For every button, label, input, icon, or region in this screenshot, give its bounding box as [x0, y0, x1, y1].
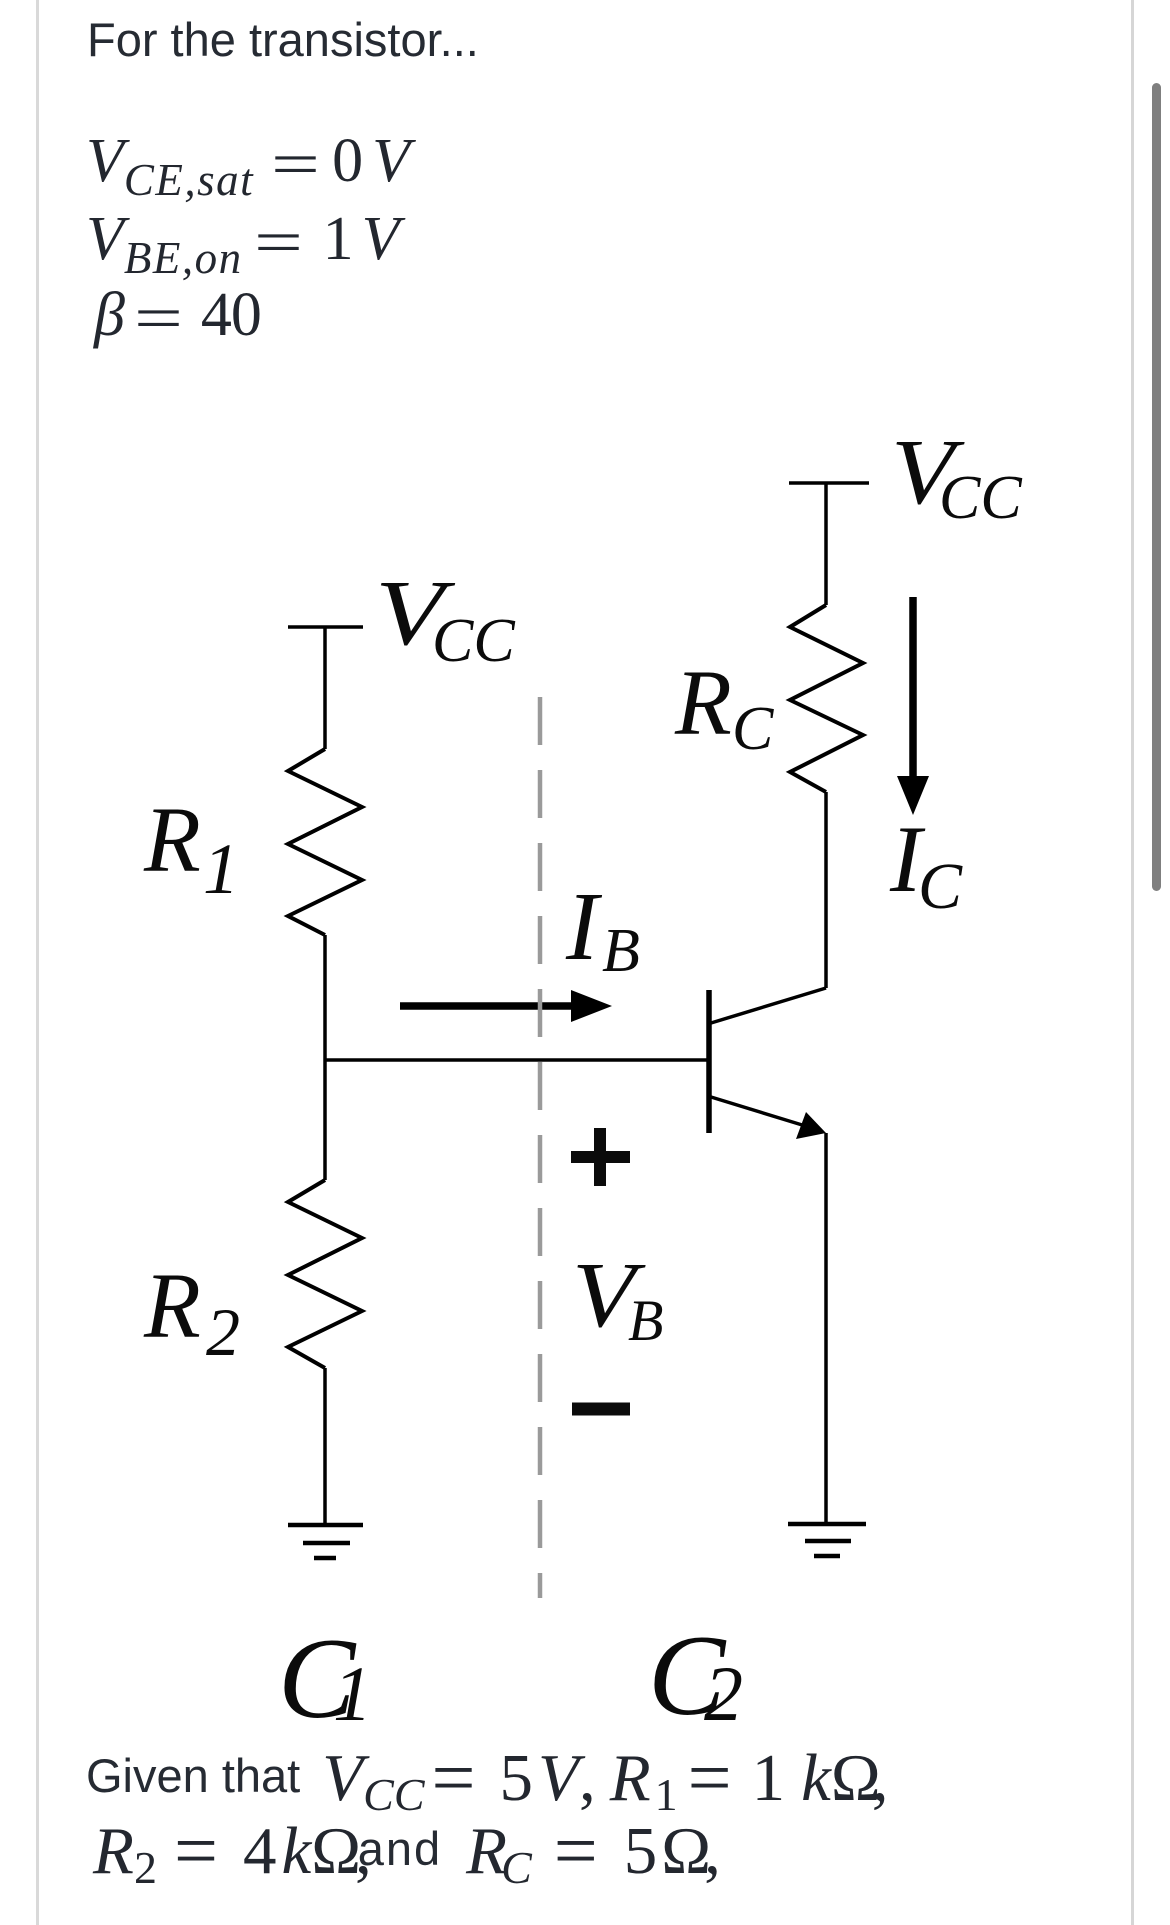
svg-text:CC: CC: [939, 464, 1022, 532]
wire R2 to ground: [323, 1368, 327, 1525]
equation beta = 40: [94, 284, 261, 346]
svg-text:C: C: [732, 695, 774, 763]
wire right vcc stem: [824, 483, 828, 605]
left page border line: [36, 0, 39, 1925]
svg-text:CC: CC: [432, 607, 515, 675]
svg-text:B: B: [602, 917, 640, 985]
vcc supply bar left: [288, 625, 363, 629]
heading: For the transistor...: [87, 12, 479, 67]
vcc supply bar right: [789, 481, 869, 485]
bottom text line 1: [86, 1729, 888, 1814]
transistor Q1 collector lead: [711, 988, 826, 1023]
equation V_CE,sat = 0 V: [86, 130, 410, 197]
svg-text:2: 2: [704, 1650, 743, 1737]
current arrow IB: [400, 1002, 576, 1010]
svg-text:B: B: [628, 1288, 663, 1353]
wire left vcc stem: [323, 627, 327, 749]
resistor RC: [790, 605, 863, 792]
right page border line: [1131, 0, 1134, 1925]
wire left vertical through base node: [323, 935, 327, 1180]
svg-text:1: 1: [333, 1650, 372, 1737]
scrollbar thumb: [1152, 83, 1161, 891]
svg-text:I: I: [565, 873, 603, 980]
svg-text:C: C: [918, 850, 963, 923]
transistor Q1 base bar: [706, 990, 712, 1133]
plus sign: [571, 1128, 630, 1186]
svg-text:R: R: [143, 1255, 201, 1358]
minus sign: [572, 1403, 630, 1416]
transistor Q1 emitter lead: [711, 1097, 812, 1128]
ground left: [288, 1525, 363, 1558]
svg-text:2: 2: [206, 1294, 240, 1370]
ground right: [788, 1524, 866, 1556]
equation V_BE,on = 1 V: [86, 208, 399, 275]
wire base horizontal: [325, 1058, 707, 1062]
wire RC to collector: [824, 792, 828, 988]
wire emitter to ground: [824, 1133, 828, 1522]
resistor R2: [288, 1180, 362, 1368]
svg-text:R: R: [674, 652, 732, 755]
bottom text line 2: [93, 1802, 721, 1887]
transistor Q1 emitter arrowhead: [796, 1112, 826, 1139]
svg-text:1: 1: [203, 829, 239, 909]
dashed divider line: [538, 697, 543, 1598]
svg-text:R: R: [143, 789, 201, 892]
resistor R1: [288, 749, 362, 935]
current arrow IC: [909, 597, 917, 779]
